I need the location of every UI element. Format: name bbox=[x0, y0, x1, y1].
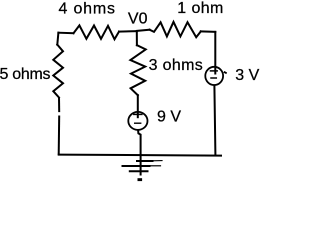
plus sign of 3V source bbox=[211, 70, 218, 72]
svg-text:1 ohm: 1 ohm bbox=[177, 0, 223, 17]
ground bar 2 (thick part) bbox=[123, 165, 150, 167]
label 4 ohms bbox=[59, 1, 116, 18]
ground bar 1 (thick part) bbox=[137, 160, 153, 162]
label 9 V bbox=[157, 109, 181, 126]
label 3 V bbox=[235, 67, 259, 84]
minus sign of 9V source bbox=[135, 122, 141, 124]
resistor 1 ohm (horizontal zigzag) bbox=[150, 22, 201, 37]
svg-text:3 V: 3 V bbox=[235, 67, 259, 84]
minus sign of 3V source bbox=[211, 77, 216, 79]
bottom bus wire bbox=[59, 155, 221, 156]
ground vertical stem bbox=[140, 155, 142, 175]
resistor 3 ohms (vertical zigzag) bbox=[130, 45, 145, 95]
svg-text:4 ohms: 4 ohms bbox=[59, 1, 116, 18]
plus sign horizontal bar of 9V source bbox=[134, 113, 142, 115]
wire node V0 to 1-ohm resistor bbox=[137, 30, 150, 31]
wire 5-ohm resistor lead (upper part) bbox=[58, 98, 60, 113]
label 1 ohm bbox=[177, 0, 223, 17]
svg-text:3 ohms: 3 ohms bbox=[149, 57, 204, 74]
wire 4-ohm resistor to node V0 bbox=[119, 30, 137, 32]
stray tick right of 3V circle bbox=[225, 71, 226, 74]
wire 5-ohm lead to bottom-left corner (below small gap) bbox=[58, 116, 61, 155]
voltage source 9 V (circle) bbox=[128, 112, 147, 130]
ground bottom dot bbox=[138, 178, 143, 181]
voltage source 3 V (circle) bbox=[205, 67, 223, 85]
label 5 ohms bbox=[0, 66, 50, 83]
wire 9V source to bottom bus bbox=[138, 130, 141, 154]
svg-text:5 ohms: 5 ohms bbox=[0, 66, 50, 83]
wire top-left corner (4-ohm left lead) bbox=[58, 32, 73, 35]
svg-text:9 V: 9 V bbox=[157, 109, 181, 126]
wire 3-ohm resistor into 9V source (plus lead) bbox=[137, 95, 139, 117]
resistor 5 ohms (vertical zigzag) bbox=[53, 45, 63, 98]
svg-text:V0: V0 bbox=[128, 11, 148, 28]
ground bar 2 (thin tail) bbox=[150, 165, 161, 167]
node V0 junction stub bbox=[136, 31, 138, 45]
wire top-right corner down into 3V source (plus lead) bbox=[214, 32, 216, 74]
ground bar 3 bbox=[130, 170, 148, 172]
ground bar 1 (thin tail) bbox=[153, 160, 163, 162]
wire top-left corner down to 5-ohm resistor bbox=[57, 33, 58, 45]
label V0 bbox=[128, 11, 148, 28]
resistor 4 ohms (horizontal zigzag) bbox=[74, 25, 120, 39]
label 3 ohms bbox=[149, 57, 204, 74]
wire 1-ohm resistor to top-right corner bbox=[201, 30, 216, 33]
wire 3V source to bottom bus bbox=[214, 86, 215, 155]
